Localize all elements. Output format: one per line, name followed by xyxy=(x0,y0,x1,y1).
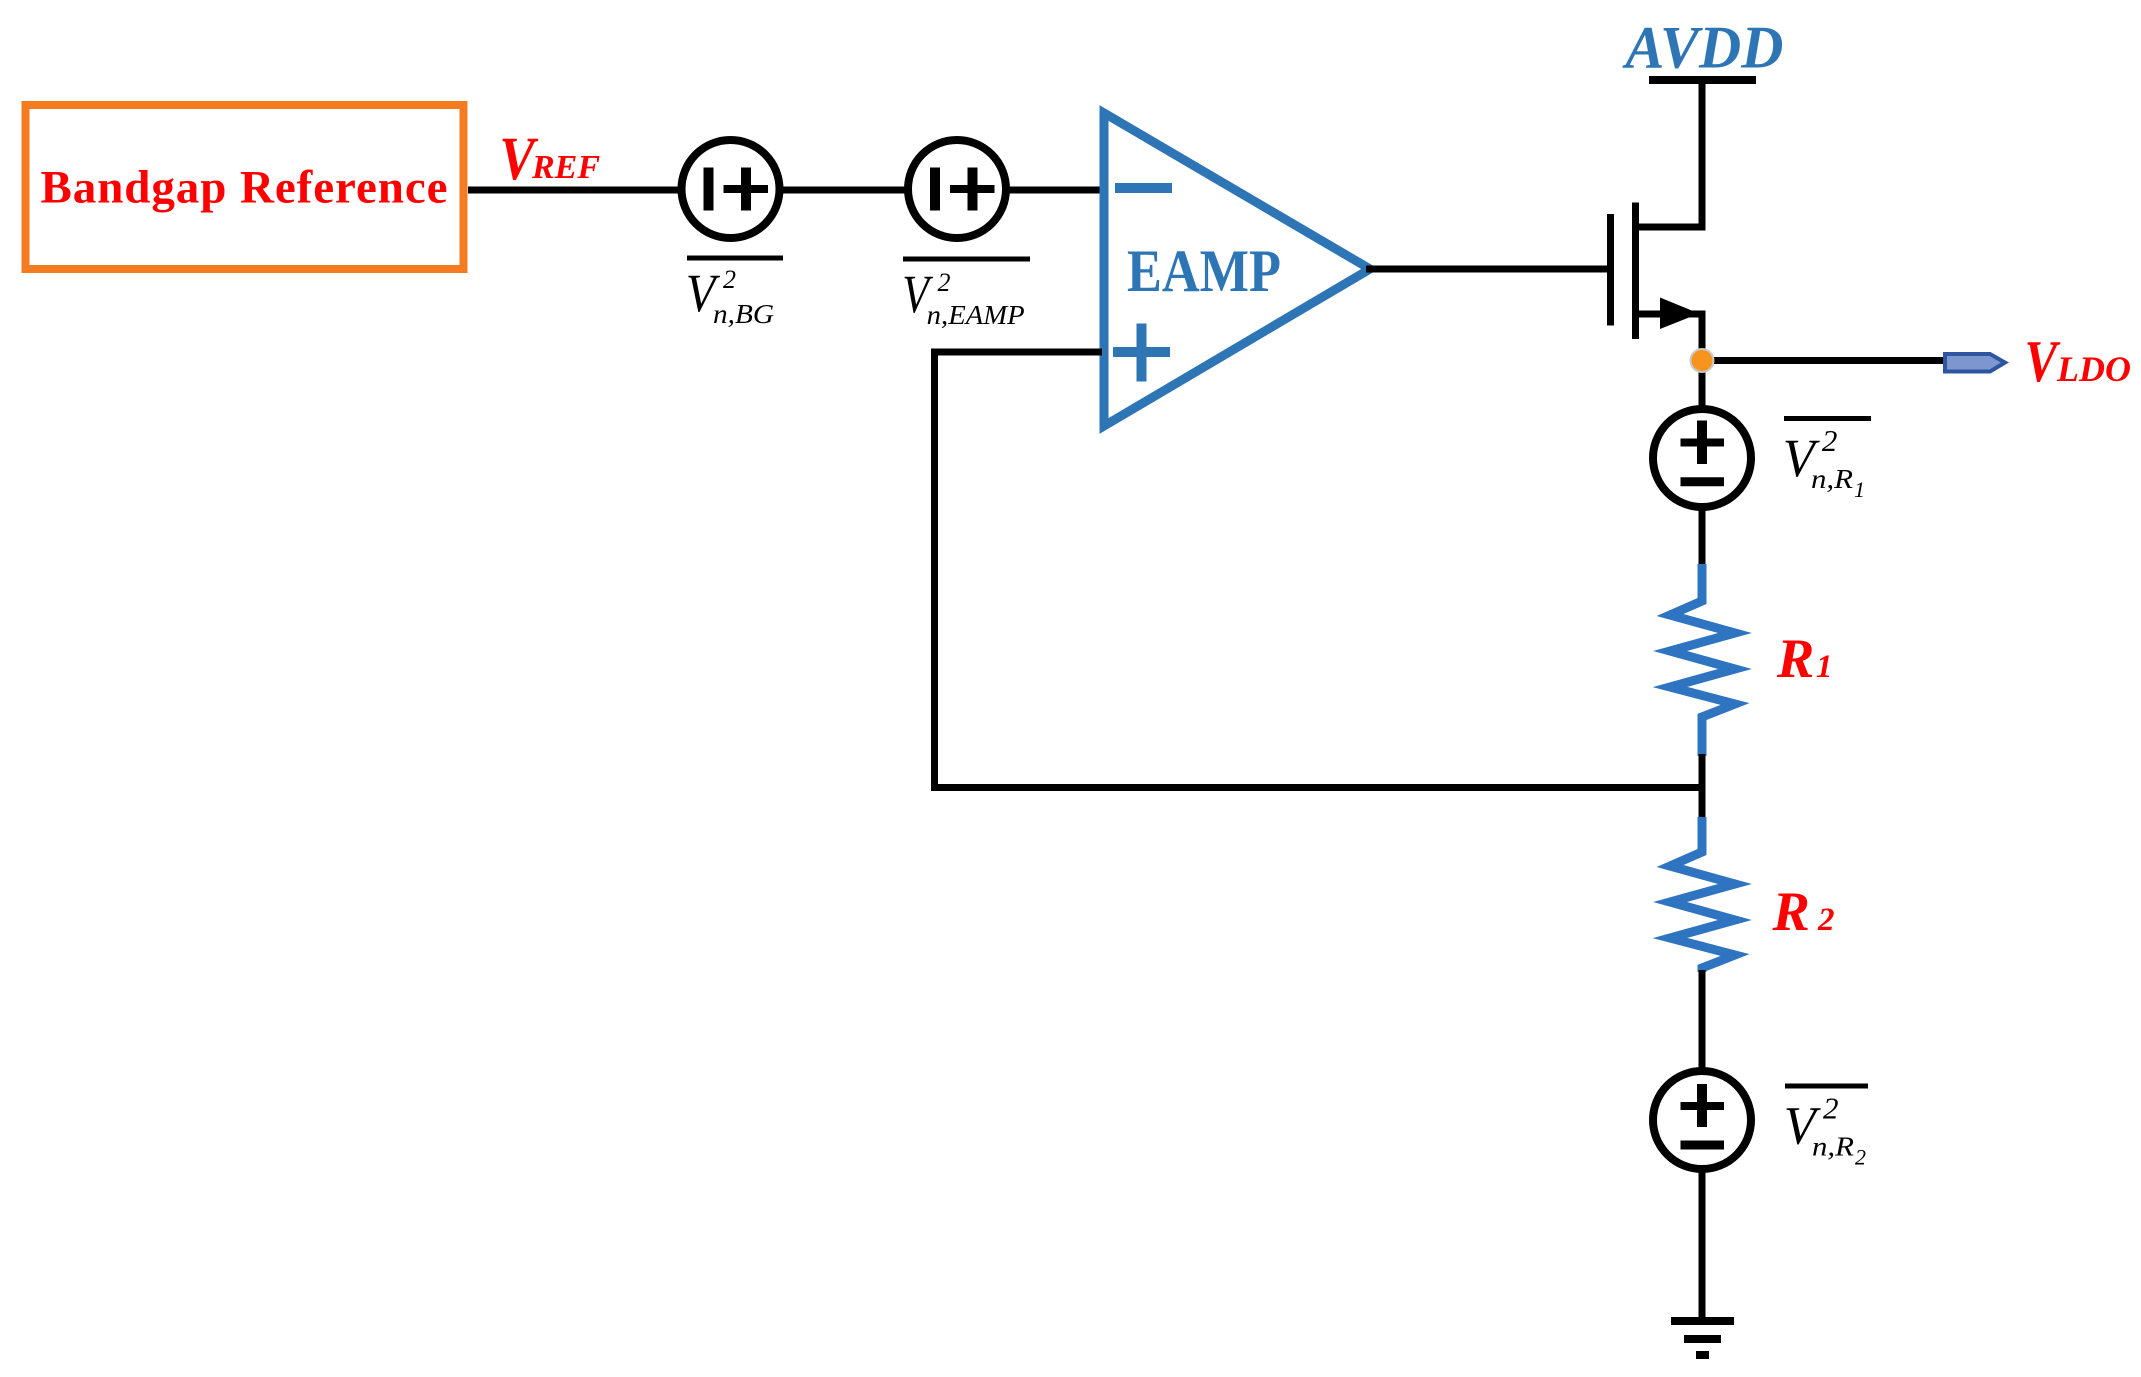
VLDO arrow terminal xyxy=(1945,354,2005,372)
svg-text:AVDD: AVDD xyxy=(1622,15,1784,81)
transistor source arrow xyxy=(1660,298,1699,330)
gate bar xyxy=(1607,214,1614,326)
wire Vn,R1 to R1 xyxy=(1699,506,1706,566)
svg-text:REF: REF xyxy=(531,149,600,186)
svg-text:2: 2 xyxy=(1822,423,1838,458)
resistor R1 xyxy=(1670,564,1735,756)
svg-text:LDO: LDO xyxy=(2056,349,2131,389)
svg-text:EAMP: EAMP xyxy=(1127,238,1281,304)
wire VLDO output xyxy=(1702,357,1944,364)
transistor Q1 pass device xyxy=(1611,80,1703,364)
wire to op-amp minus input xyxy=(1005,187,1102,194)
wire R1 to junction xyxy=(1699,754,1706,819)
node VLDO (orange junction dot) xyxy=(1691,349,1714,372)
svg-text:1: 1 xyxy=(1816,649,1833,685)
svg-text:1: 1 xyxy=(1854,477,1865,502)
label Vn,R2 xyxy=(1784,1086,1868,1170)
op-amp minus symbol xyxy=(1115,183,1172,193)
source line to AVDD xyxy=(1636,80,1703,227)
svg-text:2: 2 xyxy=(938,268,951,297)
wire box to Vn,BG source xyxy=(468,187,682,194)
bandgap reference box xyxy=(26,105,464,269)
svg-text:2: 2 xyxy=(1855,1145,1866,1170)
channel bar xyxy=(1632,203,1639,340)
svg-text:2: 2 xyxy=(1823,1091,1839,1126)
resistor R2 xyxy=(1670,817,1735,972)
wire Vn,R2 to ground xyxy=(1699,1168,1706,1321)
svg-text:R: R xyxy=(1776,628,1814,690)
noise source circle V_n,EAMP xyxy=(908,140,1006,238)
svg-text:2: 2 xyxy=(723,265,736,294)
svg-text:Bandgap Reference: Bandgap Reference xyxy=(41,162,448,214)
wire between noise sources xyxy=(779,187,908,194)
op-amp U1 EAMP triangle xyxy=(1104,113,1370,426)
noise source circle V_n,BG xyxy=(682,140,780,238)
wire op-amp output to gate xyxy=(1366,266,1607,273)
label Vn,R1 xyxy=(1783,419,1871,503)
svg-text:R: R xyxy=(1772,881,1810,943)
op-amp plus symbol xyxy=(1113,347,1170,357)
wire node to Vn,R1 source xyxy=(1699,360,1706,410)
drain line xyxy=(1636,314,1703,364)
AVDD rail bar xyxy=(1649,76,1756,84)
svg-text:n,R: n,R xyxy=(1811,464,1854,494)
noise source V_n,R2 xyxy=(1653,1071,1751,1169)
svg-text:2: 2 xyxy=(1817,902,1835,938)
wire R2 to Vn,R2 source xyxy=(1699,970,1706,1070)
label Vn,BG xyxy=(686,258,783,329)
label Vn,EAMP xyxy=(902,259,1030,330)
ground xyxy=(1671,1321,1734,1355)
svg-text:V: V xyxy=(2025,329,2061,394)
svg-text:n,BG: n,BG xyxy=(713,299,774,329)
svg-text:n,EAMP: n,EAMP xyxy=(927,300,1025,330)
feedback wire to op-amp plus input xyxy=(935,352,1706,788)
svg-text:n,R: n,R xyxy=(1812,1132,1855,1162)
noise source V_n,R1 xyxy=(1653,409,1751,507)
